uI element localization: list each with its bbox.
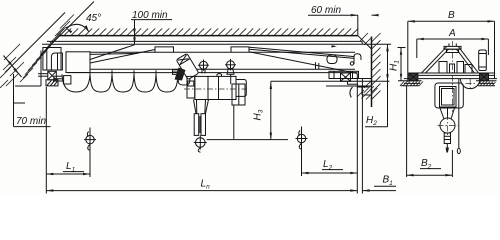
70min leader (14, 74, 51, 127)
B1 underline (374, 185, 396, 187)
end H dim ticks (398, 47, 406, 49)
B2 ext lines (407, 86, 453, 177)
hoist left box (187, 76, 195, 98)
right runway bracket (348, 79, 372, 98)
svg-text:A: A (448, 28, 456, 39)
hoist centerline (184, 88, 247, 90)
end hook tip (446, 144, 449, 153)
hook left extension (89, 128, 91, 178)
svg-text:60 min: 60 min (311, 5, 341, 16)
right lamp fitting (327, 55, 337, 64)
hook level line (207, 139, 288, 141)
end hoist chain (447, 108, 449, 118)
ceiling line (59, 35, 358, 37)
end rail hatch right (477, 82, 496, 86)
end rail hatch left (400, 82, 423, 86)
svg-text:45°: 45° (86, 13, 101, 24)
svg-text:B1: B1 (383, 175, 394, 188)
end frame right leg (457, 47, 479, 73)
left extension line (45, 87, 47, 194)
end guard center marks (466, 79, 476, 89)
end carriage beam (404, 73, 497, 79)
right wall hatching (360, 33, 381, 100)
H1 dim line (387, 44, 389, 127)
trolley wheel 2 (225, 59, 236, 71)
60min arrows (351, 14, 358, 17)
Ln dim line (46, 190, 357, 192)
svg-text:H2: H2 (366, 115, 377, 127)
end hoist body (435, 83, 463, 108)
right wall face (371, 37, 373, 108)
hook right extension (301, 127, 303, 177)
pendant cable upper (230, 74, 232, 84)
hook extreme right position (296, 130, 308, 149)
hook block bars (194, 114, 205, 136)
girder top line (90, 51, 355, 53)
left wall outer edge (5, 13, 65, 73)
L2 dim line (302, 172, 358, 174)
end cable guard (461, 79, 480, 89)
pendant cable end view (457, 79, 460, 154)
right bumper curl (354, 54, 361, 64)
runway bottom reference line (271, 80, 390, 82)
svg-text:B: B (448, 10, 455, 21)
end hoist funnel (440, 108, 455, 119)
end frame top lugs (449, 43, 456, 46)
70min dim line (4, 56, 22, 78)
girder bottom flange (67, 69, 358, 72)
end wheel right (480, 73, 489, 81)
trolley wheel 1 (198, 60, 209, 74)
left wall inner edge (41, 2, 94, 55)
end frame top plate (444, 46, 461, 52)
right suspension lug (231, 47, 249, 52)
A ext lines (417, 39, 489, 58)
L1 dim line (46, 173, 90, 175)
hoist tilted motor (176, 53, 199, 79)
pendant cable lower (233, 105, 235, 139)
crane end extension (361, 79, 363, 194)
L2 underline (322, 169, 343, 171)
left wall face (15, 51, 41, 87)
B dim line (408, 20, 495, 22)
end hoist chain box (440, 87, 457, 108)
end view centerline (451, 41, 453, 112)
top chord upper line (47, 40, 362, 42)
left wheel (48, 71, 57, 80)
right wheel (341, 73, 351, 81)
top chord right cap (361, 41, 363, 44)
festoon hanger ticks (90, 70, 178, 74)
hook extreme left position (84, 132, 96, 151)
end hook shank (444, 133, 450, 144)
svg-text:H3: H3 (253, 109, 265, 120)
right rod pin (350, 62, 353, 65)
svg-text:H1: H1 (389, 60, 401, 71)
svg-text:Ln: Ln (201, 178, 211, 190)
left runway pad (46, 80, 58, 86)
right tie rods (249, 47, 358, 73)
100min leader (131, 20, 172, 45)
hoist motor cap (236, 80, 246, 97)
100min arrows (133, 29, 136, 36)
hoist body (195, 76, 236, 99)
hoist cable clamp (173, 70, 181, 75)
top chord extension to H1 (362, 43, 391, 45)
right end carriage body (329, 71, 359, 78)
runway right extension (356, 74, 358, 194)
left suspension lug (155, 47, 174, 52)
H3 dim line (270, 81, 272, 139)
left wall outer hatch marks (0, 44, 24, 88)
B1 dim line (363, 190, 396, 192)
end frame left leg (422, 47, 449, 73)
left end carriage rib (46, 48, 48, 71)
pendant box (232, 84, 245, 105)
trolley link (217, 74, 222, 80)
B2 underline (420, 168, 441, 170)
A dim line (417, 38, 489, 40)
L1 underline (63, 171, 84, 173)
end hook sheave centerlines (438, 114, 458, 137)
electrical cabinet (479, 50, 487, 71)
ceiling hatching (57, 28, 358, 35)
left end carriage body (43, 48, 61, 71)
hoist chain fall (194, 100, 209, 114)
left end carriage plate (51, 53, 62, 70)
B2 dim line (407, 174, 453, 176)
60min ext line (357, 15, 359, 35)
hoist body division (208, 76, 219, 99)
left tie rods (90, 45, 155, 63)
end wheel left (409, 73, 418, 81)
festoon cable loops (62, 74, 190, 92)
end frame machinery boxes (439, 62, 472, 74)
hoist label plate (188, 81, 194, 86)
left festoon anchor (53, 76, 71, 84)
H2 leader (365, 126, 388, 128)
top chord lower line (42, 43, 362, 45)
main hook (194, 135, 207, 152)
right runway beam (326, 85, 372, 87)
hoist motor dark lug (175, 68, 186, 81)
end H dim line (400, 48, 402, 81)
right wall corner edge (358, 36, 372, 49)
left runway shelf (38, 74, 48, 77)
B ext lines (408, 21, 495, 82)
end hook sheave (440, 118, 455, 133)
left wall hatching (20, 15, 74, 83)
left girder end block (66, 52, 90, 73)
junction mark (332, 45, 337, 48)
pendant clamp (227, 69, 234, 75)
svg-text:70 min: 70 min (16, 116, 46, 127)
45deg leader arc (66, 24, 89, 32)
end runway rails (398, 81, 497, 86)
right bracket hatch (357, 86, 378, 100)
60min leader (308, 14, 378, 16)
right tie hangers (316, 62, 319, 69)
